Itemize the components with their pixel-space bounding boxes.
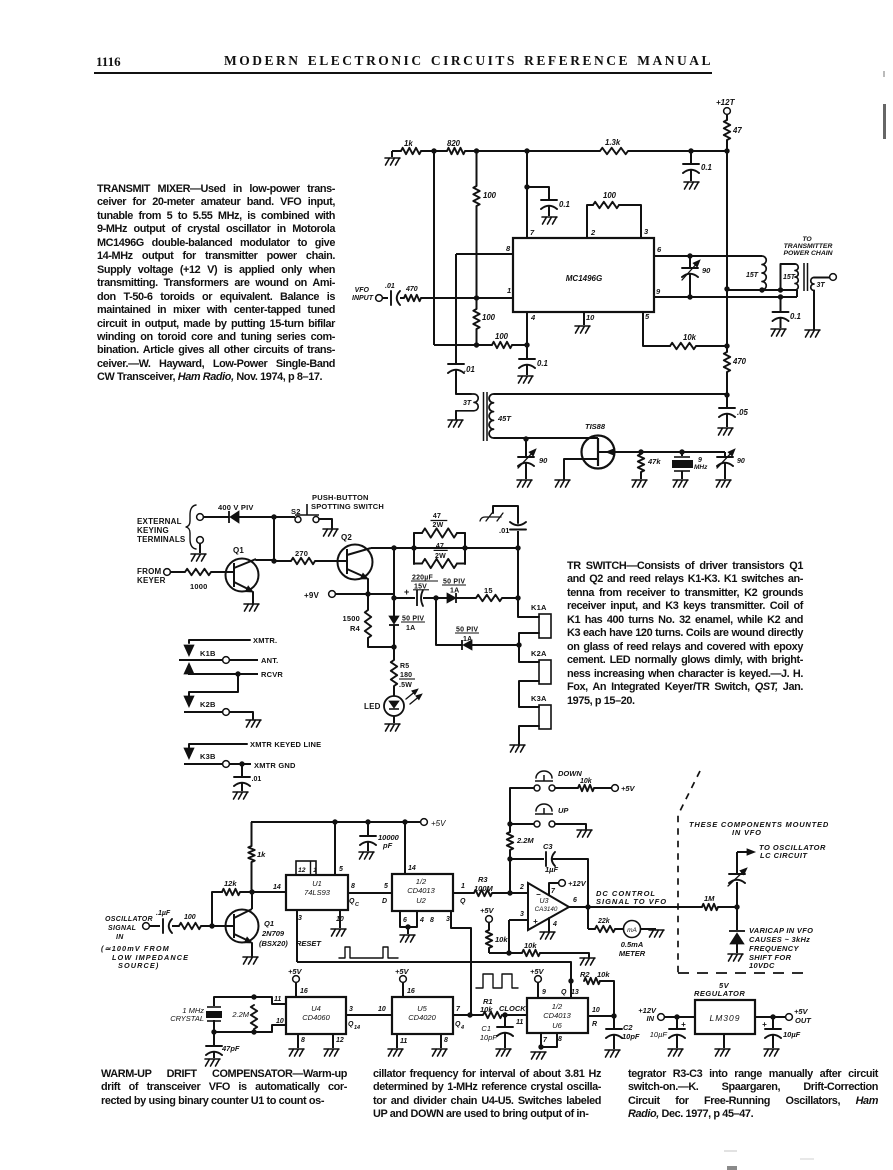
svg-text:RESET: RESET [296, 939, 322, 948]
svg-text:ANT.: ANT. [261, 656, 278, 665]
terminal +5V U4 [293, 976, 300, 983]
boundary - components mounted in VFO (dashed) [678, 771, 700, 973]
resistor 10k (bias lower) [522, 950, 540, 956]
resistor R5 180 .5W [393, 647, 395, 660]
waveform - clock square wave [476, 974, 518, 988]
node [467, 1012, 472, 1017]
svg-text:FROM: FROM [137, 567, 161, 576]
svg-text:+5V: +5V [395, 967, 410, 976]
capacitor .01 (keyed line) [241, 764, 243, 776]
svg-text:10µF: 10µF [783, 1030, 801, 1039]
node - VFO input junction [474, 295, 479, 300]
capacitor .01 (antenna) [517, 531, 519, 548]
svg-text:CA3140: CA3140 [535, 906, 558, 913]
wire - to oscillator arrow [737, 851, 749, 853]
capacitor .01 (carrier coupling) [448, 363, 464, 365]
ground [715, 1049, 730, 1056]
node [568, 978, 573, 983]
meter 0.5mA [624, 921, 641, 938]
resistor 47 [726, 115, 728, 120]
wire [726, 289, 728, 346]
capacitor 0.1 at pin7 [541, 199, 557, 201]
node - 15T bottom [759, 287, 764, 292]
node - pin9 crossing [778, 294, 783, 299]
wire [488, 948, 490, 953]
wire - output [755, 1016, 785, 1018]
ground [580, 958, 595, 965]
wire - U6 pin 10 R [588, 1015, 614, 1017]
svg-text:47pF: 47pF [221, 1044, 240, 1053]
svg-text:TIS88: TIS88 [585, 422, 606, 431]
transformer T2 winding 15T (a) [762, 256, 766, 290]
node [391, 644, 396, 649]
node [271, 558, 276, 563]
node - x274 [271, 514, 276, 519]
svg-text:0.1: 0.1 [559, 200, 570, 209]
node [516, 642, 521, 647]
wire - branch to 0.1 cap [527, 187, 549, 199]
node - emitter [365, 591, 370, 596]
svg-text:6: 6 [573, 897, 577, 904]
svg-text:3: 3 [298, 915, 302, 922]
wire - lower bus y345 [434, 344, 492, 346]
svg-text:RCVR: RCVR [261, 670, 283, 679]
svg-text:820: 820 [447, 139, 461, 148]
svg-text:8: 8 [506, 244, 511, 253]
svg-text:CRYSTAL: CRYSTAL [170, 1014, 204, 1023]
wire - pin 14 [252, 891, 286, 893]
wire - U4 pin 8 gnd [297, 1034, 299, 1048]
resistor 470 [726, 346, 728, 352]
wire - pin 9 [654, 296, 797, 298]
wire - center tap y290 [727, 289, 797, 291]
resistor 2.2M [509, 824, 511, 832]
resistor 10k [665, 345, 670, 347]
transformer T1 core [483, 392, 485, 441]
svg-text:K1B: K1B [200, 649, 216, 658]
wire [367, 579, 369, 594]
node - y394 x727 [724, 392, 729, 397]
capacitor 0.1 at rail [690, 151, 692, 163]
wire - K2A lower lead [519, 681, 539, 707]
ground - under 90 cap [517, 480, 532, 487]
svg-text:0.5mA: 0.5mA [621, 940, 644, 949]
svg-text:Q: Q [460, 898, 466, 905]
wire - +12 rail vertical [726, 151, 728, 289]
wire - U5 pin 7 clock out [453, 1014, 470, 1016]
svg-text:2: 2 [519, 884, 524, 891]
node [515, 545, 520, 550]
svg-text:MC1496G: MC1496G [566, 274, 602, 283]
wire - to ground [540, 953, 589, 957]
node [506, 950, 511, 955]
relay contacts K2B [184, 696, 194, 707]
transformer T2 winding 15T (b) [795, 264, 798, 290]
node [770, 1014, 775, 1019]
crystal 9 MHz [679, 449, 684, 454]
wire - crystal top bus [214, 997, 286, 1004]
svg-text:Q: Q [561, 989, 567, 996]
relay coil K3A [539, 705, 551, 729]
wire [509, 850, 511, 859]
diode 400 V PIV [228, 511, 230, 523]
svg-text:3: 3 [446, 916, 450, 923]
wire - 3T bottom to ground [813, 291, 815, 330]
wire [240, 891, 252, 893]
capacitor C1 10pF [504, 1015, 506, 1026]
svg-text:16: 16 [300, 988, 308, 995]
variable capacitor 90 (right) [724, 452, 726, 456]
svg-text:IN: IN [116, 934, 124, 941]
ground - pin 10 [575, 326, 590, 333]
svg-text:SIGNAL TO VFO: SIGNAL TO VFO [596, 897, 667, 906]
wire - +5V to 1k [251, 822, 253, 846]
svg-text:47: 47 [732, 126, 742, 135]
node [734, 904, 739, 909]
svg-text:C3: C3 [543, 842, 553, 851]
wire - TIS88 gate lead with arrow [598, 451, 641, 453]
svg-text:K3B: K3B [200, 752, 216, 761]
pins 12-1 loop on U1 [296, 861, 316, 875]
wire - +9V emitter bus [329, 591, 336, 598]
wire - cap to ground [690, 170, 692, 181]
svg-text:+5V: +5V [621, 784, 636, 793]
svg-text:.01: .01 [252, 776, 262, 783]
svg-text:D: D [382, 898, 387, 905]
wire [615, 928, 624, 930]
resistor 47 2W (lower) [414, 563, 422, 565]
wire - 2.2M node to pin 2 [509, 859, 511, 893]
svg-text:10k: 10k [580, 778, 593, 785]
svg-text:90: 90 [702, 266, 711, 275]
wire - pin 3 [509, 919, 528, 921]
svg-text:10: 10 [586, 313, 595, 322]
svg-text:UP: UP [558, 806, 569, 815]
svg-text:0.1: 0.1 [790, 312, 801, 321]
svg-text:10k: 10k [597, 970, 610, 979]
scan artifact right edge [883, 104, 886, 139]
op-amp U3 CA3140 [528, 883, 569, 930]
svg-text:22k: 22k [597, 918, 611, 925]
ground [359, 852, 374, 859]
svg-text:100: 100 [603, 191, 617, 200]
svg-text:6: 6 [403, 917, 407, 924]
svg-text:10pF: 10pF [480, 1033, 498, 1042]
wire - pin 5 to +5V [334, 822, 336, 875]
resistor 22k [595, 926, 615, 932]
resistor 100 [172, 925, 179, 927]
IC MC1496G double-balanced modulator [513, 238, 654, 312]
wire [150, 925, 160, 927]
resistor 10k (DOWN) [578, 785, 594, 791]
wire [510, 788, 534, 824]
wire [641, 928, 656, 930]
svg-text:10: 10 [336, 916, 344, 923]
svg-text:+: + [762, 1020, 767, 1029]
wire - to K1A [518, 598, 539, 617]
svg-text:3: 3 [644, 227, 649, 236]
wire - pin 5 [643, 312, 670, 346]
variable capacitor 90 (osc tank) [525, 439, 527, 456]
ground - under 0.1 cap [684, 182, 699, 189]
transformer T2 secondary 3T [811, 278, 814, 291]
svg-text:+12T: +12T [716, 98, 736, 107]
wire - pin8 to .01 cap vertical x456 [455, 254, 457, 363]
ground - under pin7 cap [542, 217, 557, 224]
regulator LM309 [695, 1000, 755, 1034]
resistor 2.2M (crystal) [251, 1005, 257, 1029]
svg-text:U4: U4 [311, 1004, 321, 1013]
wire - to Q1 base [201, 925, 234, 927]
svg-text:Q1: Q1 [233, 546, 244, 555]
svg-text:OUT: OUT [795, 1016, 812, 1025]
svg-text:100: 100 [495, 332, 509, 341]
node - x476 y345 [474, 342, 479, 347]
wire - 3T bottom to ground [455, 411, 457, 419]
wire - pin 7 +12V [549, 883, 558, 895]
wire - pin 7 [526, 187, 528, 238]
svg-text:XMTR GND: XMTR GND [254, 761, 296, 770]
wire - pin 8 to U2 pin 5 [348, 892, 392, 894]
svg-text:12k: 12k [224, 879, 237, 888]
svg-text:1k: 1k [257, 850, 266, 859]
resistor R1 10k [483, 1012, 502, 1018]
node [411, 545, 416, 550]
terminal +5V U6 [535, 976, 542, 983]
ground - left of 1k [385, 158, 400, 165]
svg-text:4: 4 [460, 1025, 464, 1031]
svg-text:FREQUENCY: FREQUENCY [749, 944, 799, 953]
ground [716, 480, 731, 487]
ground [205, 1059, 220, 1066]
svg-text:16: 16 [407, 988, 415, 995]
wire - U4 pin 3 to U5 pin 10 [346, 1014, 392, 1016]
IC U6 CD4013 half [527, 998, 588, 1033]
wire [251, 862, 253, 889]
wire - pin 2 riser [587, 205, 593, 238]
ground [324, 1049, 339, 1056]
svg-text:8: 8 [430, 917, 434, 924]
brace [186, 505, 196, 549]
svg-text:6: 6 [657, 245, 662, 254]
svg-text:15T: 15T [746, 272, 759, 279]
svg-text:U6: U6 [552, 1021, 562, 1030]
svg-text:0.1: 0.1 [701, 163, 712, 172]
svg-text:7: 7 [530, 228, 535, 237]
svg-text:14: 14 [354, 1025, 360, 1031]
svg-text:1500: 1500 [343, 614, 361, 623]
antenna stub squiggle [480, 513, 503, 521]
svg-text:5: 5 [339, 866, 343, 873]
resistor 100 (pins 2-3) [593, 202, 619, 208]
resistor 100 (lower divider) [476, 298, 478, 309]
wire - pin 3 riser [619, 205, 641, 238]
svg-text:IN VFO: IN VFO [732, 828, 762, 837]
svg-text:1/2: 1/2 [552, 1002, 563, 1011]
wire - mixer top rail left to ground [392, 150, 401, 152]
wire - gate bus to 90 trimmer [682, 451, 725, 453]
node - 47k [638, 449, 643, 454]
node [251, 1029, 256, 1034]
svg-text:DOWN: DOWN [558, 769, 582, 778]
wire - TIS88 source to ground [564, 459, 598, 479]
wire [470, 1014, 483, 1016]
relay coil K2A [539, 660, 551, 684]
wire [393, 716, 395, 723]
wire [548, 206, 550, 216]
svg-text:CAUSES ~ 3kHz: CAUSES ~ 3kHz [749, 935, 810, 944]
svg-text:4: 4 [552, 921, 557, 928]
wire - to Q2 base [315, 560, 347, 562]
wire - U4 pin 12 gnd [332, 1034, 334, 1048]
svg-text:9: 9 [656, 287, 661, 296]
transistor Q1 2N709 [226, 910, 259, 943]
node - rail x691 [688, 148, 693, 153]
svg-text:REGULATOR: REGULATOR [694, 989, 745, 998]
svg-text:180: 180 [400, 672, 412, 679]
node - pin9/90 cap [687, 294, 692, 299]
wire - lower terminal to ground [199, 544, 201, 553]
svg-text:EXTERNAL: EXTERNAL [137, 517, 182, 526]
terminal - keying lower [197, 537, 204, 544]
svg-text:XMTR KEYED LINE: XMTR KEYED LINE [250, 740, 321, 749]
capacitor C2 10pF [613, 1016, 615, 1028]
svg-text:+: + [404, 587, 409, 597]
svg-text:100: 100 [483, 191, 497, 200]
svg-text:1A: 1A [450, 588, 459, 595]
wire [718, 906, 737, 908]
svg-text:47: 47 [433, 513, 441, 520]
svg-text:Q2: Q2 [341, 533, 352, 542]
resistor 1M [702, 904, 718, 910]
wire - 100 to pin4 node [512, 344, 527, 346]
svg-text:SIGNAL: SIGNAL [108, 925, 136, 932]
svg-text:74LS93: 74LS93 [304, 888, 331, 897]
svg-text:4: 4 [530, 313, 536, 322]
svg-text:1µF: 1µF [545, 865, 558, 874]
pins 7-8 tie U6 [541, 1033, 557, 1047]
svg-text:100: 100 [482, 313, 496, 322]
svg-text:mA: mA [627, 927, 637, 934]
svg-text:15T: 15T [783, 274, 796, 281]
transformer T2 core [803, 263, 805, 291]
svg-text:7: 7 [456, 1006, 461, 1013]
node [251, 994, 256, 999]
wire - pin 16 [402, 983, 404, 997]
ground - LED [385, 724, 400, 731]
svg-text:(≃100mV FROM: (≃100mV FROM [101, 944, 170, 953]
node [209, 923, 214, 928]
ground [518, 376, 533, 383]
resistor R2 10k [584, 978, 600, 984]
waveform - reset pulses [339, 947, 398, 958]
ground - K2B [246, 720, 261, 727]
wire - output pin 6 [569, 906, 702, 908]
svg-text:10: 10 [592, 1007, 600, 1014]
wire - DOWN to 10k [555, 787, 578, 789]
svg-text:2W: 2W [433, 522, 444, 529]
wire - pin 9 [537, 983, 539, 998]
terminal +12V [559, 880, 566, 887]
svg-text:100: 100 [184, 914, 196, 921]
svg-text:U5: U5 [417, 1004, 427, 1013]
svg-text:14: 14 [273, 884, 281, 891]
wire - pin 13 [570, 981, 572, 998]
svg-text:7: 7 [543, 1037, 548, 1044]
svg-text:MHz: MHz [694, 464, 708, 471]
capacitor 47pF [213, 1032, 215, 1045]
wire [502, 597, 518, 599]
wire [594, 787, 611, 789]
svg-text:+5V: +5V [794, 1007, 809, 1016]
wire [456, 597, 476, 599]
transistor Q2 [338, 545, 373, 580]
wire - pin 4 [548, 918, 550, 931]
terminal +12V in [658, 1014, 665, 1021]
svg-text:+5V: +5V [530, 967, 545, 976]
relay contacts K3B [189, 744, 247, 748]
svg-text:+5V: +5V [480, 906, 495, 915]
wire - to Q1 base [211, 571, 234, 573]
wire [726, 372, 728, 395]
svg-text:pF: pF [382, 841, 393, 850]
node - y346 [724, 343, 729, 348]
svg-text:U3: U3 [540, 898, 549, 905]
wire - divider to bus [476, 329, 478, 345]
svg-text:METER: METER [619, 949, 646, 958]
IC U2 CD4013 half [392, 874, 453, 911]
ground [764, 1049, 779, 1056]
ground [191, 554, 206, 561]
wire - pin 10 to ground [339, 910, 341, 928]
supply rail +5V (U1/U2) [251, 821, 420, 823]
wire - 3T to output terminal [814, 277, 829, 279]
capacitor .05 [726, 395, 728, 407]
svg-text:XMTR.: XMTR. [253, 636, 277, 645]
resistor 100 (lower bus) [492, 342, 512, 348]
wire - to tuning cap [736, 882, 738, 907]
wire - pin 16 [295, 983, 297, 997]
svg-text:270: 270 [295, 549, 308, 558]
svg-text:LC CIRCUIT: LC CIRCUIT [760, 851, 808, 860]
terminal +5V (pin3 bias) [486, 916, 493, 923]
wire - 220uF bus [394, 597, 415, 599]
capacitor .01 (VFO coupling) [390, 291, 392, 305]
svg-text:470: 470 [405, 286, 418, 293]
ground - under crystal [673, 480, 688, 487]
node - x527 y345 [524, 342, 529, 347]
node - y289 [724, 286, 729, 291]
svg-text:POWER CHAIN: POWER CHAIN [783, 250, 833, 257]
wire - R4 to LED branch [368, 638, 394, 647]
svg-text:1: 1 [507, 286, 511, 295]
svg-text:10µF: 10µF [650, 1030, 668, 1039]
wire - x527 rail to pin7 node [526, 151, 528, 187]
node - x526 y439 [523, 436, 528, 441]
svg-text:KEYING: KEYING [137, 526, 169, 535]
svg-text:470: 470 [732, 357, 747, 366]
wire - C3 to output [553, 859, 588, 907]
wire - K1A lower lead [519, 633, 539, 645]
node - rail x727 [724, 148, 729, 153]
svg-text:VFO: VFO [355, 287, 370, 294]
node [515, 595, 520, 600]
wire - rail 1k to 820 [421, 150, 447, 152]
wire - to K2A [519, 645, 539, 662]
variable capacitor (VFO tank) [729, 873, 745, 875]
svg-text:C2: C2 [623, 1023, 633, 1032]
ground - pin 4 [540, 932, 555, 939]
